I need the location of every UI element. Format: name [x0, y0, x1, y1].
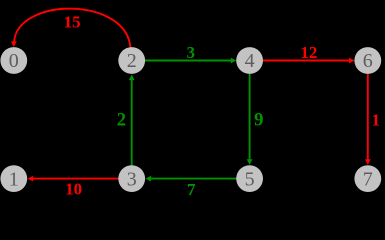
svg-text:2: 2 [127, 50, 137, 72]
svg-text:7: 7 [187, 180, 196, 197]
svg-text:6: 6 [363, 50, 373, 72]
svg-text:1: 1 [9, 168, 19, 190]
svg-text:12: 12 [300, 43, 317, 62]
svg-text:3: 3 [127, 168, 137, 190]
svg-text:4: 4 [245, 50, 255, 72]
svg-text:0: 0 [9, 50, 19, 72]
svg-text:9: 9 [254, 110, 264, 131]
svg-text:1: 1 [371, 111, 380, 130]
svg-text:10: 10 [65, 180, 82, 197]
svg-text:5: 5 [245, 168, 255, 190]
svg-text:2: 2 [117, 110, 126, 130]
svg-text:3: 3 [187, 43, 196, 62]
svg-text:7: 7 [363, 168, 373, 190]
svg-text:15: 15 [64, 12, 81, 31]
